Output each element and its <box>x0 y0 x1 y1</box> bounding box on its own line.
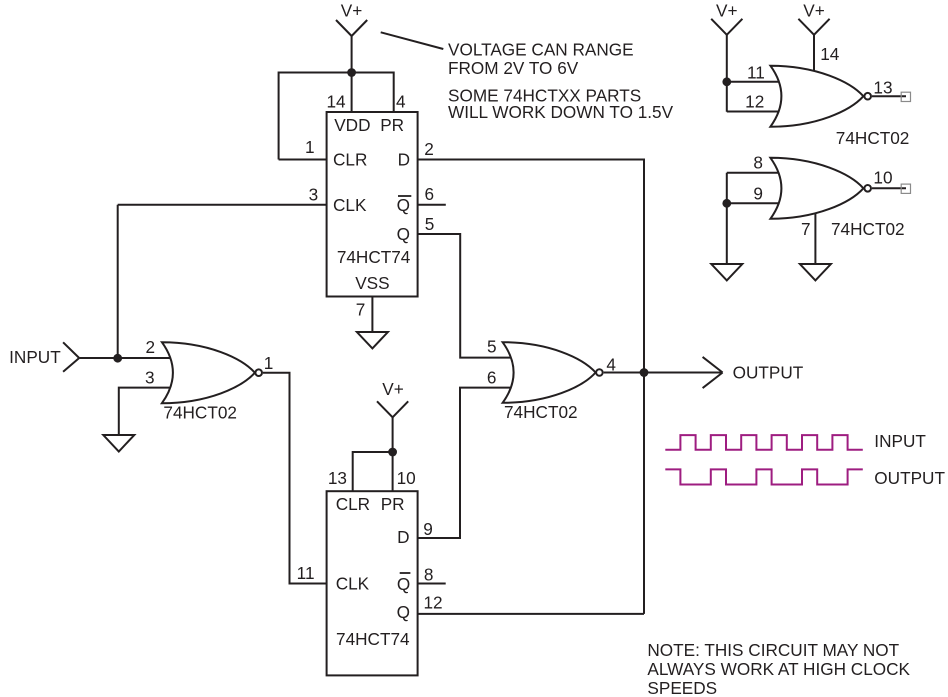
svg-text:10: 10 <box>397 468 416 488</box>
svg-text:9: 9 <box>423 519 433 539</box>
svg-text:V+: V+ <box>341 0 363 20</box>
svg-text:3: 3 <box>309 184 319 204</box>
svg-text:7: 7 <box>801 219 811 239</box>
svg-text:9: 9 <box>753 184 763 204</box>
svg-text:Q: Q <box>397 195 410 215</box>
svg-text:V+: V+ <box>716 0 738 20</box>
svg-text:12: 12 <box>745 92 764 112</box>
svg-text:PR: PR <box>380 115 404 135</box>
svg-text:VSS: VSS <box>355 273 389 293</box>
svg-text:WILL WORK DOWN TO 1.5V: WILL WORK DOWN TO 1.5V <box>448 102 674 122</box>
svg-text:74HCT02: 74HCT02 <box>504 402 578 422</box>
svg-text:11: 11 <box>297 563 315 583</box>
svg-text:CLR: CLR <box>336 494 370 514</box>
svg-text:14: 14 <box>820 44 840 64</box>
svg-text:12: 12 <box>424 592 443 612</box>
svg-text:2: 2 <box>424 139 434 159</box>
svg-text:ALWAYS WORK AT HIGH CLOCK: ALWAYS WORK AT HIGH CLOCK <box>647 659 910 679</box>
svg-text:INPUT: INPUT <box>874 431 926 451</box>
svg-text:D: D <box>397 527 409 547</box>
svg-text:FROM 2V TO 6V: FROM 2V TO 6V <box>448 58 579 78</box>
svg-text:74HCT74: 74HCT74 <box>336 629 410 649</box>
svg-text:13: 13 <box>873 78 892 98</box>
svg-text:D: D <box>398 150 410 170</box>
svg-text:VDD: VDD <box>334 115 370 135</box>
svg-text:NOTE: THIS CIRCUIT MAY NOT: NOTE: THIS CIRCUIT MAY NOT <box>647 640 899 660</box>
svg-text:6: 6 <box>487 367 497 387</box>
svg-text:OUTPUT: OUTPUT <box>733 363 804 383</box>
svg-text:8: 8 <box>753 152 763 172</box>
svg-text:10: 10 <box>873 168 892 188</box>
svg-text:4: 4 <box>396 91 406 111</box>
svg-text:CLK: CLK <box>336 574 370 594</box>
svg-text:2: 2 <box>145 337 155 357</box>
svg-text:VOLTAGE CAN RANGE: VOLTAGE CAN RANGE <box>448 39 634 59</box>
svg-text:4: 4 <box>606 355 616 375</box>
svg-text:CLK: CLK <box>333 195 367 215</box>
svg-text:Q: Q <box>397 602 410 622</box>
svg-text:11: 11 <box>747 63 765 83</box>
svg-text:7: 7 <box>356 300 366 320</box>
svg-text:1: 1 <box>305 137 315 157</box>
svg-text:Q: Q <box>397 224 410 244</box>
svg-text:V+: V+ <box>382 379 404 399</box>
svg-text:6: 6 <box>425 184 435 204</box>
svg-text:5: 5 <box>487 337 497 357</box>
svg-text:74HCT02: 74HCT02 <box>831 219 905 239</box>
svg-text:CLR: CLR <box>333 150 367 170</box>
svg-text:74HCT74: 74HCT74 <box>337 247 411 267</box>
svg-text:V+: V+ <box>803 0 825 20</box>
svg-text:3: 3 <box>145 367 155 387</box>
svg-text:13: 13 <box>328 468 347 488</box>
svg-text:OUTPUT: OUTPUT <box>874 468 945 488</box>
svg-text:74HCT02: 74HCT02 <box>163 402 237 422</box>
svg-text:14: 14 <box>326 92 346 112</box>
svg-text:Q: Q <box>397 574 410 594</box>
svg-text:8: 8 <box>424 565 434 585</box>
svg-text:74HCT02: 74HCT02 <box>836 128 910 148</box>
svg-text:INPUT: INPUT <box>9 347 61 367</box>
svg-text:1: 1 <box>264 353 274 373</box>
svg-text:5: 5 <box>425 214 435 234</box>
svg-text:SPEEDS: SPEEDS <box>647 678 717 697</box>
svg-text:PR: PR <box>381 494 405 514</box>
